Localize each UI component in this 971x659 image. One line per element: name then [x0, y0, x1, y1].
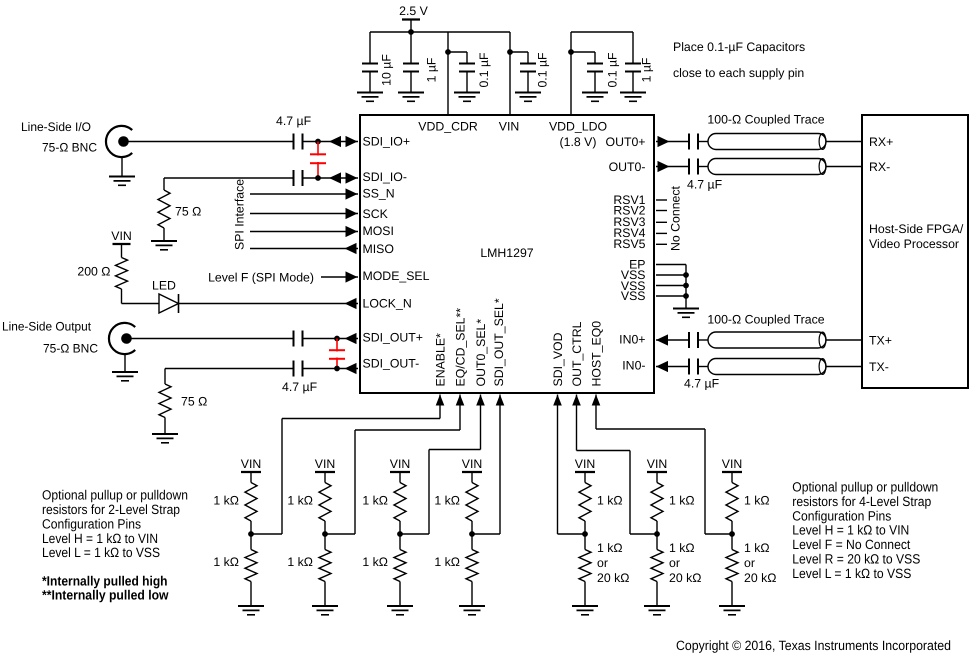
svg-text:SCK: SCK — [363, 207, 389, 221]
svg-text:VDD_CDR: VDD_CDR — [418, 120, 478, 134]
resistor R4b pulldown — [245, 550, 257, 582]
coupled trace OUT0+ — [708, 134, 826, 150]
svg-text:SDI_IO-: SDI_IO- — [363, 170, 407, 184]
capacitor C13 4.7uF — [688, 332, 690, 348]
wire R9a to node — [656, 521, 658, 550]
svg-text:TX-: TX- — [869, 360, 889, 374]
wire VIN to R4a — [250, 472, 252, 483]
wire R3 to ground — [164, 418, 166, 435]
svg-text:VDD_LDO: VDD_LDO — [549, 120, 607, 134]
ground C3 — [454, 92, 480, 94]
op-amp U1 LMH1297 body — [360, 115, 654, 393]
resistor R3 75ohm — [159, 384, 171, 418]
node VSS junction — [683, 283, 689, 289]
node SDI_OUT- junction — [334, 366, 340, 372]
svg-text:Configuration Pins: Configuration Pins — [42, 516, 141, 531]
svg-text:1 kΩ: 1 kΩ — [213, 555, 239, 569]
svg-text:resistors for 4-Level Strap: resistors for 4-Level Strap — [792, 494, 931, 509]
wire OUT0- — [656, 166, 689, 168]
svg-text:VIN: VIN — [647, 457, 668, 471]
wire VIN to R8a — [584, 472, 586, 483]
ground EP/VSS — [673, 308, 699, 310]
svg-text:4.7 µF: 4.7 µF — [282, 380, 318, 394]
wire C14 to trace — [699, 366, 713, 368]
resistor R10b pulldown — [726, 550, 738, 582]
svg-text:20 kΩ: 20 kΩ — [669, 571, 701, 585]
ground C4 — [515, 92, 541, 94]
svg-text:100-Ω Coupled Trace: 100-Ω Coupled Trace — [707, 113, 824, 127]
diode D1 LED — [159, 294, 179, 313]
svg-text:LED: LED — [152, 279, 176, 293]
wire IN0+ — [656, 339, 689, 341]
wire VIN to R7a — [471, 472, 473, 483]
arrow SS_N input — [346, 188, 358, 199]
svg-text:1 kΩ: 1 kΩ — [597, 541, 623, 555]
wire C7 to SDI_IO+ — [303, 141, 359, 143]
arrow SDI_OUT- output — [345, 363, 357, 374]
arrow OUT0_SEL* input — [476, 395, 485, 406]
wire trace to FPGA IN0- — [826, 366, 862, 368]
wire RSV4 stub — [656, 232, 667, 234]
arrow OUT_CTRL input — [572, 395, 581, 406]
arrow EQ/CD_SEL** input — [456, 395, 465, 406]
wire R7a to node — [471, 521, 473, 550]
wire EP — [656, 264, 686, 266]
svg-text:SPI Interface: SPI Interface — [233, 179, 247, 250]
svg-text:VIN: VIN — [241, 457, 262, 471]
wire IN0- — [656, 366, 689, 368]
svg-text:1 µF: 1 µF — [640, 57, 654, 82]
wire R10a to node — [731, 521, 733, 550]
svg-text:Level H = 1 kΩ to VIN: Level H = 1 kΩ to VIN — [42, 531, 158, 546]
capacitor C6 1uF — [632, 32, 634, 64]
wire trace to FPGA OUT0- — [826, 166, 862, 168]
coupled trace OUT0- — [708, 159, 826, 175]
svg-text:IN0-: IN0- — [622, 358, 645, 372]
wire VIN to R2 — [121, 244, 123, 258]
svg-text:Level L = 1 kΩ to VSS: Level L = 1 kΩ to VSS — [792, 566, 911, 581]
wire R4a to node — [250, 521, 252, 550]
wire R4b to ground — [250, 582, 252, 607]
svg-text:100-Ω Coupled Trace: 100-Ω Coupled Trace — [707, 313, 824, 327]
svg-text:Copyright © 2016, Texas Instru: Copyright © 2016, Texas Instruments Inco… — [676, 638, 951, 653]
wire trace to FPGA OUT0+ — [826, 141, 862, 143]
wire 2.5V to bus — [410, 20, 412, 33]
svg-text:TX+: TX+ — [869, 333, 892, 347]
wire ENABLE* strap — [439, 395, 441, 419]
wire HOST_EQ0 strap — [595, 395, 597, 430]
ground J1 — [109, 176, 135, 178]
node SDI_IO+ junction — [315, 139, 321, 145]
ground strap col 7 — [459, 605, 485, 607]
node VIN cap junction — [507, 49, 513, 55]
node strap col 9 — [654, 531, 660, 537]
connector J1 75-ohm BNC — [106, 126, 132, 157]
svg-text:75-Ω BNC: 75-Ω BNC — [43, 342, 98, 356]
wire R6b to ground — [399, 582, 401, 607]
wire C9 to SDI_OUT+ — [303, 338, 359, 340]
svg-text:0.1 µF: 0.1 µF — [536, 52, 550, 88]
svg-text:Line-Side Output: Line-Side Output — [2, 320, 92, 334]
svg-text:Optional pullup or pulldown: Optional pullup or pulldown — [42, 488, 188, 503]
arrow OUT0- output — [658, 161, 670, 172]
node SDI_OUT+ junction — [334, 336, 340, 342]
svg-text:1 kΩ: 1 kΩ — [434, 555, 460, 569]
supply 2.5V bar — [402, 18, 420, 20]
node supply bus junction — [408, 29, 414, 35]
resistor R4a 1k pullup — [245, 483, 257, 522]
capacitor C7 4.7uF — [293, 134, 295, 150]
wire J1 shield to ground — [121, 157, 123, 176]
capacitor C9 4.7uF — [293, 331, 295, 347]
node VSS junction — [683, 293, 689, 299]
wire trace to FPGA IN0+ — [826, 339, 862, 341]
svg-text:Line-Side I/O: Line-Side I/O — [21, 120, 91, 134]
ground C5 — [582, 92, 608, 94]
wire RSV1 stub — [656, 199, 667, 201]
wire R1 to ground — [163, 228, 165, 241]
svg-text:resistors for 2-Level Strap: resistors for 2-Level Strap — [42, 502, 180, 517]
svg-text:75 Ω: 75 Ω — [175, 205, 201, 219]
wire R7b to ground — [471, 582, 473, 607]
wire MOSI — [250, 231, 358, 233]
svg-text:Video Processor: Video Processor — [869, 237, 959, 251]
wire VDD_CDR drop — [447, 32, 449, 114]
ground strap col 10 — [719, 605, 745, 607]
svg-text:SS_N: SS_N — [363, 187, 395, 201]
svg-text:*Internally pulled high: *Internally pulled high — [42, 573, 168, 588]
svg-text:1 kΩ: 1 kΩ — [213, 494, 239, 508]
svg-text:VIN: VIN — [111, 229, 132, 243]
wire R5b to ground — [324, 582, 326, 607]
svg-text:75-Ω BNC: 75-Ω BNC — [42, 141, 97, 155]
ground strap col 6 — [387, 605, 413, 607]
wire OUT_CTRL strap — [576, 395, 578, 451]
ground strap col 4 — [238, 605, 264, 607]
svg-text:1 kΩ: 1 kΩ — [287, 494, 313, 508]
arrow MISO output — [345, 243, 357, 254]
svg-text:1 kΩ: 1 kΩ — [287, 555, 313, 569]
svg-text:1 kΩ: 1 kΩ — [669, 541, 695, 555]
svg-text:SDI_IO+: SDI_IO+ — [363, 135, 411, 149]
arrow SDI_IO- bidirectional — [329, 172, 341, 183]
resistor R5b pulldown — [319, 550, 331, 582]
node SDI_IO- junction — [315, 175, 321, 181]
svg-text:VIN: VIN — [499, 120, 520, 134]
svg-text:RX-: RX- — [869, 160, 890, 174]
node strap col 8 — [582, 531, 588, 537]
wire RSV5 stub — [656, 243, 667, 245]
svg-text:1 kΩ: 1 kΩ — [434, 494, 460, 508]
capacitor C15 red optional — [310, 142, 326, 179]
wire SCK — [250, 213, 358, 215]
wire SS_N — [250, 193, 358, 195]
wire VIN drop — [509, 32, 511, 114]
arrow MOSI input — [346, 226, 358, 237]
capacitor C10 4.7uF — [293, 361, 295, 377]
wire MISO — [250, 248, 358, 250]
svg-text:1 kΩ: 1 kΩ — [669, 494, 695, 508]
ground strap col 8 — [572, 605, 598, 607]
resistor R7b pulldown — [466, 550, 478, 582]
ground R1 — [151, 240, 177, 242]
ground strap col 5 — [312, 605, 338, 607]
svg-text:MISO: MISO — [363, 242, 394, 256]
svg-text:SDI_VOD: SDI_VOD — [551, 332, 565, 386]
capacitor C8 4.7uF — [293, 170, 295, 186]
svg-text:200 Ω: 200 Ω — [77, 265, 110, 279]
node strap col 7 — [469, 531, 475, 537]
svg-text:HOST_EQ0: HOST_EQ0 — [590, 321, 604, 387]
wire VSS — [656, 295, 686, 297]
svg-text:MODE_SEL: MODE_SEL — [363, 269, 430, 283]
node VDD_LDO cap junction — [568, 49, 574, 55]
ground C2 — [398, 92, 424, 94]
svg-text:20 kΩ: 20 kΩ — [744, 571, 776, 585]
svg-text:or: or — [669, 556, 680, 570]
svg-text:OUT_CTRL: OUT_CTRL — [570, 321, 584, 386]
wire EQ/CD_SEL** strap — [459, 395, 461, 431]
ground strap col 9 — [644, 605, 670, 607]
wire R6a to node — [399, 521, 401, 550]
svg-text:close to each supply pin: close to each supply pin — [673, 66, 804, 80]
svg-text:VIN: VIN — [575, 457, 596, 471]
arrow IN0- input — [656, 361, 668, 372]
svg-text:No Connect: No Connect — [669, 185, 683, 251]
wire SDI_OUT_SEL* strap — [499, 395, 501, 535]
wire R2 to LED — [121, 289, 123, 304]
wire SDI_IO- left — [164, 177, 294, 179]
svg-text:EQ/CD_SEL**: EQ/CD_SEL** — [454, 308, 468, 387]
node strap col 10 — [729, 531, 735, 537]
wire RSV2 stub — [656, 210, 667, 212]
capacitor C16 red optional — [329, 339, 345, 369]
wire MODE_SEL — [321, 276, 358, 278]
FPGA box — [862, 115, 968, 388]
ground J2 — [112, 371, 138, 373]
wire supply bus right — [571, 31, 633, 33]
svg-text:SDI_OUT_SEL*: SDI_OUT_SEL* — [492, 298, 506, 386]
capacitor C4 0.1uF — [527, 52, 529, 64]
svg-text:75 Ω: 75 Ω — [181, 395, 207, 409]
wire VIN to R5a — [324, 472, 326, 483]
capacitor C14 4.7uF — [688, 359, 690, 375]
resistor R8a 1k pullup — [579, 483, 591, 522]
resistor R6b pulldown — [394, 550, 406, 582]
svg-text:VIN: VIN — [390, 457, 411, 471]
svg-text:ENABLE*: ENABLE* — [434, 333, 448, 387]
svg-text:(1.8 V): (1.8 V) — [560, 135, 597, 149]
wire LED to LOCK_N — [179, 303, 359, 305]
wire supply bus left — [370, 31, 510, 33]
node VDD_CDR cap junction — [445, 49, 451, 55]
node VSS junction — [683, 272, 689, 278]
wire J1 to C7 — [128, 141, 293, 143]
svg-text:Place 0.1-µF Capacitors: Place 0.1-µF Capacitors — [673, 40, 805, 54]
resistor R5a 1k pullup — [319, 483, 331, 522]
arrow SCK input — [346, 208, 358, 219]
svg-text:1 kΩ: 1 kΩ — [362, 494, 388, 508]
ground C1 — [357, 92, 383, 94]
svg-text:VIN: VIN — [722, 457, 743, 471]
svg-text:OUT0-: OUT0- — [609, 160, 646, 174]
wire VIN to R10a — [731, 472, 733, 483]
capacitor C5 0.1uF — [594, 52, 596, 64]
capacitor C2 1uF — [410, 32, 412, 64]
svg-text:Host-Side FPGA/: Host-Side FPGA/ — [869, 222, 964, 236]
wire R5a to node — [324, 521, 326, 550]
svg-text:Level L = 1 kΩ to VSS: Level L = 1 kΩ to VSS — [42, 545, 160, 560]
svg-text:RX+: RX+ — [869, 135, 893, 149]
svg-text:Level F (SPI Mode): Level F (SPI Mode) — [208, 270, 314, 284]
arrow SDI_OUT+ output — [345, 333, 357, 344]
svg-text:1 kΩ: 1 kΩ — [744, 541, 770, 555]
connector J2 75-ohm BNC — [109, 323, 135, 354]
svg-text:0.1 µF: 0.1 µF — [606, 52, 620, 88]
resistor R2 200ohm — [116, 258, 128, 290]
svg-text:4.7 µF: 4.7 µF — [687, 178, 723, 192]
svg-text:Level H = 1 kΩ to VIN: Level H = 1 kΩ to VIN — [792, 523, 909, 538]
wire EP/VSS to ground — [685, 265, 687, 309]
wire VDD_LDO drop — [570, 32, 572, 114]
wire VSS — [656, 274, 686, 276]
svg-text:MOSI: MOSI — [363, 224, 394, 238]
svg-text:10 µF: 10 µF — [380, 54, 394, 86]
wire C11 to trace — [699, 141, 713, 143]
arrow LOCK_N output — [345, 298, 357, 309]
wire J2 shield to ground — [124, 354, 126, 372]
wire VIN to R9a — [656, 472, 658, 483]
coupled trace IN0+ — [708, 332, 826, 348]
ground R3 — [152, 433, 178, 435]
svg-text:SDI_OUT-: SDI_OUT- — [363, 356, 420, 370]
svg-text:IN0+: IN0+ — [619, 332, 645, 346]
resistor R6a 1k pullup — [394, 483, 406, 522]
wire OUT0_SEL* strap — [480, 395, 482, 450]
wire C12 to trace — [699, 166, 713, 168]
svg-text:Configuration Pins: Configuration Pins — [792, 508, 891, 523]
wire J2 to C9 — [131, 338, 293, 340]
svg-text:4.7 µF: 4.7 µF — [684, 377, 720, 391]
resistor R7a 1k pullup — [466, 483, 478, 522]
svg-text:VSS: VSS — [621, 289, 646, 303]
wire to resistor R1 — [163, 178, 165, 190]
svg-text:VIN: VIN — [462, 457, 483, 471]
wire RSV3 stub — [656, 221, 667, 223]
wire OUT0+ — [656, 141, 689, 143]
node strap col 4 — [248, 531, 254, 537]
wire to resistor R3 — [164, 369, 166, 385]
resistor R1 75ohm — [158, 190, 170, 228]
wire VSS — [656, 285, 686, 287]
svg-text:LOCK_N: LOCK_N — [363, 296, 412, 310]
wire R8a to node — [584, 521, 586, 550]
svg-text:4.7 µF: 4.7 µF — [276, 114, 312, 128]
svg-text:or: or — [744, 556, 755, 570]
svg-text:1 kΩ: 1 kΩ — [744, 494, 770, 508]
svg-text:SDI_OUT+: SDI_OUT+ — [363, 330, 423, 344]
wire C10 to SDI_OUT- — [303, 368, 359, 370]
supply VIN bar — [113, 243, 131, 245]
wire R10b to ground — [731, 582, 733, 607]
svg-text:RSV5: RSV5 — [613, 237, 645, 251]
svg-text:Level F = No Connect: Level F = No Connect — [792, 537, 910, 552]
svg-text:1 µF: 1 µF — [425, 57, 439, 82]
node strap col 5 — [322, 531, 328, 537]
arrow OUT0+ output — [658, 136, 670, 147]
svg-text:1 kΩ: 1 kΩ — [362, 555, 388, 569]
capacitor C3 0.1uF — [466, 52, 468, 64]
capacitor C11 4.7uF — [688, 134, 690, 150]
wire R8b to ground — [584, 582, 586, 607]
capacitor C12 4.7uF — [688, 159, 690, 175]
wire SDI_VOD strap — [557, 395, 559, 535]
ground C6 — [620, 92, 646, 94]
svg-text:1 kΩ: 1 kΩ — [597, 494, 623, 508]
arrow SDI_OUT_SEL* input — [496, 395, 505, 406]
svg-text:VIN: VIN — [315, 457, 336, 471]
arrow MODE_SEL input — [346, 271, 358, 282]
arrow SDI_IO+ bidirectional — [329, 136, 341, 147]
svg-text:or: or — [597, 556, 608, 570]
wire VIN to R6a — [399, 472, 401, 483]
wire C13 to trace — [699, 339, 713, 341]
capacitor C1 10uF — [369, 32, 371, 64]
coupled trace IN0- — [708, 359, 826, 375]
arrow SDI_VOD input — [553, 395, 562, 406]
svg-text:**Internally pulled low: **Internally pulled low — [42, 588, 169, 603]
arrow IN0+ input — [656, 334, 668, 345]
arrow HOST_EQ0 input — [592, 395, 601, 406]
svg-text:20 kΩ: 20 kΩ — [597, 571, 629, 585]
svg-text:2.5 V: 2.5 V — [399, 4, 429, 18]
arrow ENABLE* input — [436, 395, 445, 406]
wire SDI_OUT- left — [165, 368, 294, 370]
resistor R9b pulldown — [651, 550, 663, 582]
wire R9b to ground — [656, 582, 658, 607]
resistor R9a 1k pullup — [651, 483, 663, 522]
node strap col 6 — [397, 531, 403, 537]
svg-text:0.1 µF: 0.1 µF — [477, 52, 491, 88]
svg-text:OUT0_SEL*: OUT0_SEL* — [474, 319, 488, 387]
resistor R10a 1k pullup — [726, 483, 738, 522]
svg-text:Optional pullup or pulldown: Optional pullup or pulldown — [792, 480, 938, 495]
svg-text:Level R = 20 kΩ to VSS: Level R = 20 kΩ to VSS — [792, 552, 920, 567]
svg-text:OUT0+: OUT0+ — [606, 135, 646, 149]
svg-text:LMH1297: LMH1297 — [480, 246, 533, 260]
resistor R8b pulldown — [579, 550, 591, 582]
wire C8 to SDI_IO- — [303, 177, 359, 179]
